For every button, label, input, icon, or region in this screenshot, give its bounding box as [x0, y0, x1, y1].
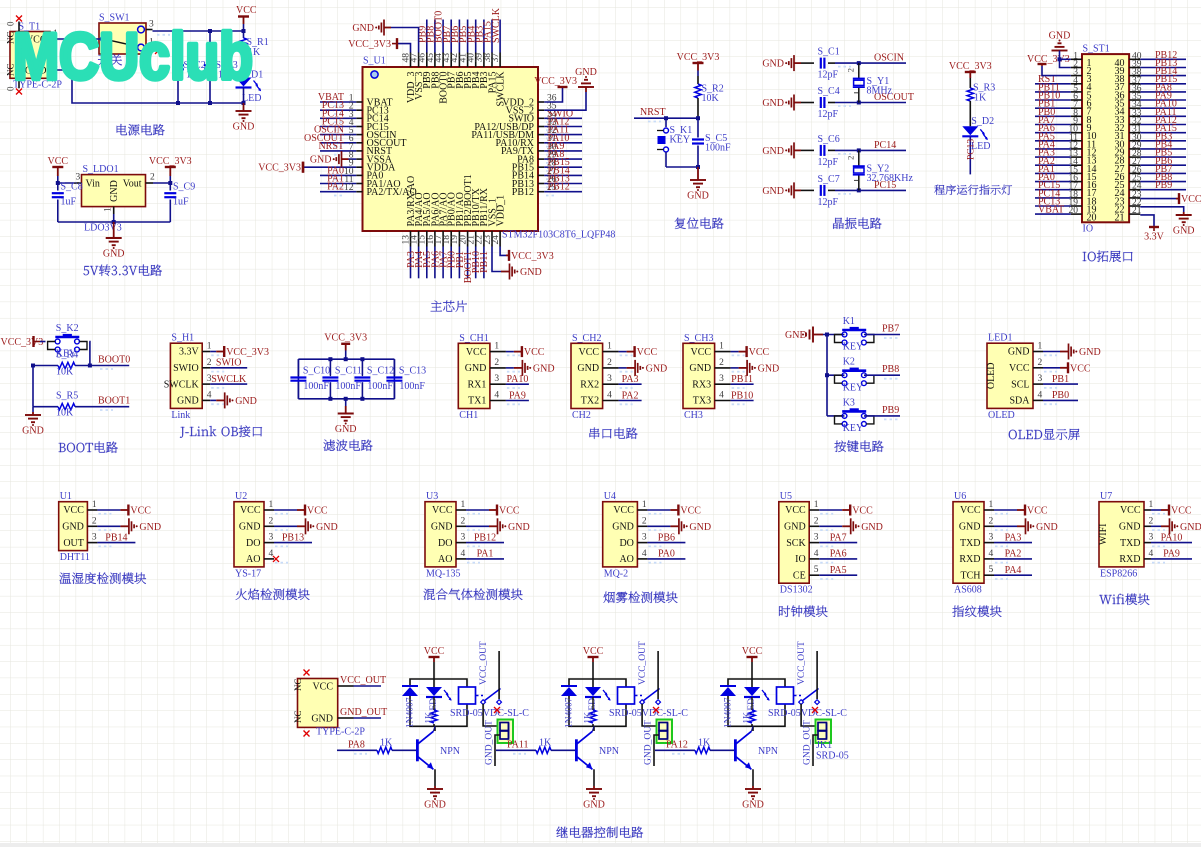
connector S_T1 TYPE-C-2P: [10, 32, 50, 79]
net label PA8: [337, 749, 377, 751]
capacitor S_C11 100nF: [329, 359, 331, 375]
ground GND ST1 bottom: [1183, 212, 1185, 215]
svg-text:TX1: TX1: [468, 396, 486, 407]
button K2: [842, 373, 847, 378]
svg-text:1N4007: 1N4007: [406, 697, 416, 728]
LED relay: [585, 687, 601, 696]
svg-text:PC13: PC13: [967, 139, 977, 160]
svg-text:VCC: VCC: [1009, 363, 1030, 374]
diode 1N4007: [720, 685, 736, 687]
svg-text:PC14: PC14: [874, 140, 896, 151]
diode 1N4007: [402, 685, 418, 687]
svg-text:VCC: VCC: [1120, 505, 1141, 516]
svg-text:OUT: OUT: [63, 538, 84, 549]
svg-text:4: 4: [989, 549, 994, 559]
svg-text:S_CH1: S_CH1: [459, 333, 488, 344]
svg-text:VCC_OUT: VCC_OUT: [797, 641, 807, 685]
svg-text:Vin: Vin: [86, 178, 100, 189]
svg-text:GND: GND: [758, 363, 780, 374]
svg-text:3: 3: [92, 533, 97, 543]
wire boot ground leg: [32, 366, 34, 407]
svg-text:RX2: RX2: [580, 379, 599, 390]
svg-text:VCC: VCC: [749, 347, 770, 358]
svg-text:GND: GND: [533, 363, 555, 374]
svg-text:GND: GND: [762, 98, 784, 109]
svg-text:1: 1: [104, 207, 114, 212]
svg-text:GND: GND: [103, 249, 125, 260]
resistor S_R1 1K: [243, 31, 245, 38]
svg-text:VCC: VCC: [637, 347, 658, 358]
svg-text:21: 21: [1115, 213, 1125, 224]
transistor NPN: [416, 739, 419, 761]
wire VSS_3 to GND: [391, 28, 419, 53]
svg-text:GND: GND: [959, 522, 981, 533]
title program run indicator: [934, 185, 1012, 195]
module U3: [425, 502, 456, 567]
svg-text:12pF: 12pF: [818, 109, 839, 120]
svg-text:SWCLK: SWCLK: [491, 7, 502, 43]
svg-text:VCC: VCC: [691, 347, 712, 358]
power VCC_3V3 at VDD_2: [558, 86, 568, 88]
svg-text:1: 1: [461, 500, 466, 510]
svg-text:VCC: VCC: [785, 505, 806, 516]
svg-text:Link: Link: [171, 410, 190, 421]
svg-text:3.3V: 3.3V: [1144, 232, 1165, 243]
svg-text:1uF: 1uF: [173, 197, 189, 208]
wire VDD_1 to VCC_3V3: [500, 247, 506, 256]
svg-text:PB10: PB10: [731, 390, 753, 401]
svg-text:GND: GND: [1180, 522, 1201, 533]
relay rails: [410, 679, 467, 687]
capacitor S_C3 100nF: [209, 31, 211, 61]
svg-text:100nF: 100nF: [303, 381, 329, 392]
svg-text:4: 4: [1149, 549, 1154, 559]
wire K1 to PB7: [864, 334, 900, 336]
module LED1: [987, 343, 1033, 408]
power VCC_3V3 reset: [697, 63, 699, 71]
wire switch pin3 to VCC rail: [153, 30, 244, 32]
svg-text:GND: GND: [1079, 347, 1101, 358]
title serial circuit: [590, 428, 638, 439]
svg-text:PA10: PA10: [1161, 532, 1183, 543]
capacitor S_C1 12pF: [794, 62, 801, 64]
svg-text:VCC_3V3: VCC_3V3: [324, 333, 367, 344]
resistor S_R5 10K: [33, 406, 58, 408]
svg-text:VCC_3V3: VCC_3V3: [149, 156, 192, 167]
svg-text:2: 2: [642, 516, 647, 526]
module U5: [779, 502, 809, 584]
svg-text:PA3: PA3: [1005, 532, 1022, 543]
svg-text:1: 1: [642, 500, 647, 510]
svg-text:3: 3: [607, 374, 612, 384]
svg-text:SWCLK: SWCLK: [164, 379, 200, 390]
svg-text:PA0: PA0: [658, 549, 675, 560]
svg-text:VCC: VCC: [240, 505, 261, 516]
connector JK terminal: [816, 720, 832, 744]
capacitor S_C5 100nF: [697, 118, 699, 137]
module S_CH2: [571, 343, 603, 408]
ground GND power circuit: [243, 103, 245, 111]
svg-text:PB0: PB0: [1052, 390, 1069, 401]
svg-text:VCC: VCC: [1181, 194, 1201, 205]
svg-text:4: 4: [719, 391, 724, 401]
svg-text:37: 37: [491, 53, 501, 63]
svg-text:GND: GND: [1036, 522, 1058, 533]
svg-text:PA8: PA8: [348, 740, 365, 751]
svg-text:1: 1: [494, 342, 499, 352]
title power circuit: [117, 124, 165, 135]
svg-text:NRST: NRST: [318, 141, 344, 152]
svg-text:3: 3: [1149, 533, 1154, 543]
svg-text:GND: GND: [689, 363, 711, 374]
svg-text:DS1302: DS1302: [780, 585, 813, 596]
svg-text:S_C7: S_C7: [818, 174, 840, 185]
power VCC_3V3 bottom: [506, 254, 509, 256]
svg-text:PA2: PA2: [1005, 549, 1022, 560]
svg-text:PA5: PA5: [830, 565, 847, 576]
resistor 1K base: [377, 747, 392, 753]
wire reset ground rail: [666, 166, 698, 168]
capacitor S_C7 12pF: [794, 189, 801, 191]
svg-text:PA12: PA12: [666, 740, 688, 751]
svg-text:LED1: LED1: [988, 333, 1012, 344]
svg-text:VCC: VCC: [680, 506, 701, 517]
svg-text:VCC: VCC: [48, 156, 69, 167]
svg-text:2: 2: [814, 516, 819, 526]
svg-text:GND: GND: [109, 180, 120, 202]
wire to ground filter: [345, 399, 347, 406]
svg-text:SWIO: SWIO: [173, 363, 199, 374]
svg-text:VCC_3V3: VCC_3V3: [226, 347, 269, 358]
svg-text:S_U1: S_U1: [363, 56, 386, 67]
svg-text:SCL: SCL: [1011, 379, 1029, 390]
svg-text:21: 21: [1132, 206, 1142, 216]
svg-text:CH1: CH1: [459, 410, 478, 421]
power VCC_3V3 at VDDA: [303, 166, 356, 168]
wire Vout: [153, 182, 170, 184]
svg-text:3: 3: [269, 533, 274, 543]
svg-text:GND: GND: [583, 800, 605, 811]
svg-text:4: 4: [607, 391, 612, 401]
svg-text:2: 2: [269, 516, 274, 526]
svg-text:S_C9: S_C9: [173, 182, 195, 193]
module U6: [953, 502, 984, 584]
title relay control circuit: [557, 827, 644, 839]
svg-text:PB14: PB14: [105, 532, 127, 543]
resistor S_R3 1K: [969, 78, 971, 88]
svg-text:PB12: PB12: [512, 187, 534, 198]
svg-text:GND_OUT: GND_OUT: [485, 720, 495, 765]
svg-text:VCC: VCC: [524, 347, 545, 358]
svg-text:1N4007: 1N4007: [565, 697, 575, 728]
svg-text:S_LDO1: S_LDO1: [83, 164, 119, 175]
svg-text:4: 4: [642, 549, 647, 559]
capacitor S_C10 100nF: [297, 359, 299, 375]
ground GND reset: [697, 167, 699, 180]
svg-text:GND: GND: [233, 122, 255, 133]
svg-text:VCC_OUT: VCC_OUT: [638, 641, 648, 685]
relay unit PA12 power: [751, 657, 753, 662]
svg-text:OLED: OLED: [986, 362, 997, 389]
svg-text:2: 2: [989, 516, 994, 526]
power VCC ST1 pin23: [1140, 198, 1176, 200]
svg-text:CH3: CH3: [684, 410, 703, 421]
svg-text:PB12: PB12: [474, 532, 496, 543]
svg-text:2: 2: [719, 358, 724, 368]
svg-text:KEY: KEY: [670, 135, 691, 146]
wire VSS_1 to GND: [492, 247, 501, 272]
resistor 1K base: [536, 747, 551, 753]
svg-text:U5: U5: [780, 491, 792, 502]
svg-text:NC: NC: [293, 710, 303, 723]
net label PA12: [655, 749, 695, 751]
svg-text:2: 2: [846, 68, 856, 72]
svg-text:3: 3: [642, 533, 647, 543]
resistor S_R2 10K: [697, 76, 699, 84]
svg-text:8MHz: 8MHz: [867, 85, 893, 96]
capacitor S_C12 100nF: [361, 359, 363, 375]
svg-text:4: 4: [1038, 390, 1043, 400]
svg-text:1K: 1K: [539, 738, 552, 749]
title 5V to 3.3V: [84, 265, 162, 277]
capacitor S_C2 100uF: [177, 31, 179, 61]
svg-text:NPN: NPN: [440, 746, 460, 757]
svg-text:2: 2: [461, 516, 466, 526]
ground GND LDO: [113, 222, 115, 238]
resistor 1K vertical: [751, 697, 753, 710]
svg-text:BOOT1: BOOT1: [98, 396, 130, 407]
relay switch: [794, 695, 802, 697]
svg-text:KEY: KEY: [843, 423, 864, 434]
svg-text:4: 4: [269, 549, 274, 559]
svg-text:GND: GND: [646, 363, 668, 374]
svg-text:TX3: TX3: [693, 396, 711, 407]
svg-text:GND: GND: [520, 267, 542, 278]
svg-text:VBAT: VBAT: [1038, 205, 1064, 216]
svg-text:2: 2: [494, 358, 499, 368]
VCC power port top: [243, 17, 245, 25]
svg-text:GND: GND: [352, 23, 374, 34]
svg-text:YS-17: YS-17: [235, 568, 261, 579]
relay coil box: [777, 687, 794, 704]
svg-text:SDA: SDA: [1009, 396, 1030, 407]
filter rails: [298, 358, 394, 360]
connector S_ST1 body: [1082, 54, 1129, 222]
relay unit PA11 power: [592, 657, 594, 662]
wire emitter to GND: [751, 768, 753, 770]
svg-text:STM32F103C8T6_LQFP48: STM32F103C8T6_LQFP48: [502, 230, 615, 241]
svg-text:1K: 1K: [380, 738, 393, 749]
svg-text:100nF: 100nF: [399, 381, 425, 392]
title IO expansion: [1083, 251, 1133, 262]
wire relay common to JK: [801, 704, 815, 726]
svg-text:PA6: PA6: [830, 549, 847, 560]
wire K3 to PB9: [864, 415, 900, 417]
svg-text:1: 1: [269, 500, 274, 510]
svg-text:AO: AO: [438, 554, 452, 565]
svg-text:U3: U3: [426, 491, 438, 502]
svg-text:VCC: VCC: [613, 505, 634, 516]
svg-text:1K: 1K: [584, 712, 594, 724]
svg-text:GND: GND: [1049, 31, 1071, 42]
svg-text:AS608: AS608: [954, 585, 982, 596]
svg-text:VCC: VCC: [960, 505, 981, 516]
ground GND boot: [32, 412, 34, 415]
wire ST1 pin21 to 3.3V: [1140, 215, 1154, 227]
relay unit PA8 power: [433, 657, 435, 662]
capacitor S_C13 100nF: [393, 359, 395, 375]
svg-text:S_C12: S_C12: [367, 366, 394, 377]
svg-text:2: 2: [92, 516, 97, 526]
svg-text:GND: GND: [310, 155, 332, 166]
svg-text:IO: IO: [1083, 224, 1094, 235]
svg-text:NPN: NPN: [758, 746, 778, 757]
svg-text:GND: GND: [575, 67, 597, 78]
wire T1 VCC to switch: [58, 38, 101, 40]
svg-text:GND: GND: [687, 191, 709, 202]
ground GND ST1 top: [1059, 50, 1061, 52]
svg-text:SWCLK: SWCLK: [211, 374, 247, 385]
relay coil box: [459, 687, 476, 704]
svg-text:S_R5: S_R5: [56, 391, 78, 402]
svg-text:VCC: VCC: [307, 506, 328, 517]
svg-text:AO: AO: [619, 554, 633, 565]
power VCC_3V3 top: [396, 38, 398, 49]
wire K2 to BOOT0: [88, 342, 91, 366]
svg-text:2: 2: [607, 358, 612, 368]
svg-text:1N4007: 1N4007: [724, 697, 734, 728]
svg-text:PB13: PB13: [282, 532, 304, 543]
svg-text:VCC: VCC: [1070, 363, 1091, 374]
svg-text:S_ST1: S_ST1: [1083, 44, 1110, 55]
wire key bus: [823, 334, 844, 336]
svg-text:S_K2: S_K2: [56, 323, 79, 334]
svg-text:PB8: PB8: [882, 364, 899, 375]
ground GND at VSS_2: [585, 87, 587, 92]
svg-text:PA3: PA3: [622, 374, 639, 385]
svg-text:NC: NC: [293, 678, 303, 691]
svg-text:GND: GND: [431, 522, 453, 533]
crystal S_Y2 32.768KHz: [858, 150, 860, 166]
svg-text:VCC: VCC: [236, 5, 257, 16]
svg-text:VCC: VCC: [466, 347, 487, 358]
relay rails: [728, 679, 785, 687]
svg-text:SRD-05: SRD-05: [816, 751, 849, 762]
svg-text:DO: DO: [619, 538, 633, 549]
VCC_3V3 power port: [169, 167, 171, 176]
svg-text:GND_OUT: GND_OUT: [644, 720, 654, 765]
svg-text:GND: GND: [762, 146, 784, 157]
svg-text:GND: GND: [1173, 226, 1195, 237]
svg-text:10K: 10K: [56, 367, 74, 378]
svg-text:3: 3: [461, 533, 466, 543]
svg-text:DO: DO: [438, 538, 452, 549]
svg-text:VCC: VCC: [1027, 506, 1048, 517]
svg-text:VCC_OUT: VCC_OUT: [340, 675, 386, 686]
svg-text:PA2: PA2: [622, 390, 639, 401]
svg-text:2: 2: [846, 156, 856, 160]
svg-text:GND_OUT: GND_OUT: [340, 707, 387, 718]
module U1: [59, 502, 88, 551]
svg-text:VCC_3V3: VCC_3V3: [534, 76, 577, 87]
svg-text:VCC: VCC: [583, 646, 604, 657]
svg-text:S_C8: S_C8: [61, 182, 83, 193]
svg-text:VCC: VCC: [424, 646, 445, 657]
svg-text:S_C4: S_C4: [818, 86, 840, 97]
net label NRST wire: [634, 117, 698, 119]
svg-text:VCC_3V3: VCC_3V3: [677, 52, 720, 63]
LED relay: [426, 687, 442, 696]
svg-text:WIFI: WIFI: [1098, 523, 1109, 545]
svg-text:1: 1: [607, 342, 612, 352]
svg-text:NRST: NRST: [640, 107, 666, 118]
svg-text:S_C10: S_C10: [303, 366, 330, 377]
svg-text:GND: GND: [785, 330, 807, 341]
svg-text:U2: U2: [235, 491, 247, 502]
svg-text:VCC: VCC: [312, 681, 333, 692]
svg-text:K3: K3: [843, 397, 855, 408]
module U4: [603, 502, 638, 567]
module S_CH1: [458, 343, 490, 408]
svg-text:S_C11: S_C11: [335, 366, 362, 377]
svg-text:SWIO: SWIO: [216, 358, 242, 369]
svg-text:100nF: 100nF: [367, 381, 393, 392]
svg-text:S_C6: S_C6: [818, 134, 840, 145]
svg-text:GND: GND: [742, 800, 764, 811]
power 3.3V ST1: [1149, 226, 1159, 228]
button S_K1 KEY: [665, 118, 667, 127]
relay switch: [635, 695, 643, 697]
title key circuit: [834, 440, 883, 452]
svg-text:20: 20: [1087, 213, 1097, 224]
title BOOT circuit: [59, 442, 118, 453]
svg-text:PA9: PA9: [1163, 549, 1180, 560]
svg-text:1: 1: [1038, 342, 1043, 352]
svg-text:ESP8266: ESP8266: [1100, 568, 1137, 579]
svg-text:U6: U6: [954, 491, 966, 502]
svg-text:VCC_3V3: VCC_3V3: [1, 337, 44, 348]
svg-text:CE: CE: [793, 570, 806, 581]
svg-text:12pF: 12pF: [818, 197, 839, 208]
svg-text:PB7: PB7: [882, 324, 899, 335]
svg-text:VCC: VCC: [852, 506, 873, 517]
svg-text:IO: IO: [795, 554, 806, 565]
LED relay: [744, 687, 760, 696]
svg-text:VCC: VCC: [130, 506, 151, 517]
svg-text:GND_OUT: GND_OUT: [803, 720, 813, 765]
svg-text:GND: GND: [311, 713, 333, 724]
svg-text:TCH: TCH: [961, 570, 981, 581]
ground GND relay: [752, 786, 754, 789]
svg-text:S_CH2: S_CH2: [572, 333, 601, 344]
wire emitter to GND: [433, 768, 435, 770]
svg-text:GND: GND: [612, 522, 634, 533]
svg-text:GND: GND: [62, 522, 84, 533]
svg-text:GND: GND: [424, 800, 446, 811]
svg-text:VCC_3V3: VCC_3V3: [511, 251, 554, 262]
svg-text:GND: GND: [861, 522, 883, 533]
svg-text:CH2: CH2: [572, 410, 591, 421]
svg-text:AO: AO: [246, 554, 260, 565]
title main chip: [431, 301, 467, 313]
svg-text:S_H1: S_H1: [171, 333, 194, 344]
svg-text:2: 2: [1038, 358, 1043, 368]
svg-text:OLED: OLED: [988, 410, 1015, 421]
svg-text:GND: GND: [22, 426, 44, 437]
crystal S_Y1 8MHz: [858, 63, 860, 78]
svg-text:NPN: NPN: [599, 746, 619, 757]
svg-text:1: 1: [719, 342, 724, 352]
